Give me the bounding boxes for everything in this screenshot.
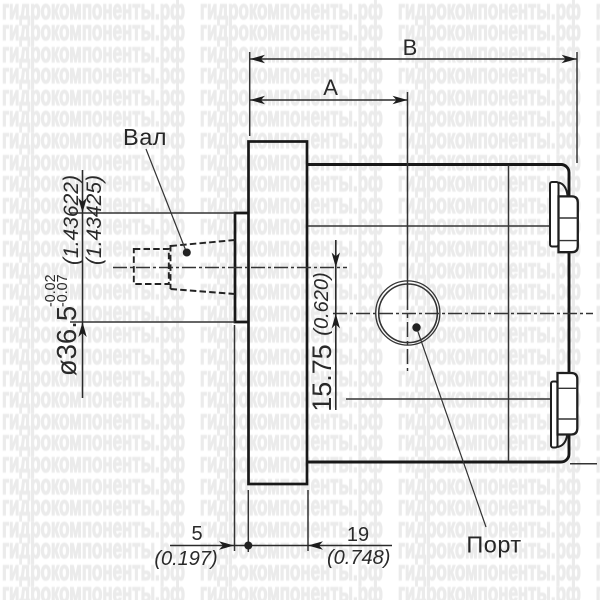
extension line hub bottom xyxy=(70,321,235,323)
dimension 15.75 arrow top xyxy=(332,253,340,268)
bolt bottom washer xyxy=(551,382,558,448)
dimension A arrow right xyxy=(393,96,408,104)
shaft hidden outline: taper bottom xyxy=(171,289,236,294)
svg-text:ø36.5: ø36.5 xyxy=(51,306,82,376)
shaft hidden outline: taper top xyxy=(171,240,236,246)
port horizontal centerline xyxy=(333,313,593,315)
bolt top washer xyxy=(550,182,559,247)
shaft hidden outline: threaded end xyxy=(134,249,169,284)
svg-text:(0.197): (0.197) xyxy=(154,548,217,570)
bolt top facet lines xyxy=(559,217,578,219)
pilot hub boss xyxy=(235,213,249,322)
bolt bottom hex head xyxy=(558,373,578,435)
port leader dot xyxy=(412,323,420,331)
dimension B line xyxy=(250,58,577,60)
svg-text:Порт: Порт xyxy=(466,532,521,558)
svg-text:(0.748): (0.748) xyxy=(327,547,390,569)
svg-text:В: В xyxy=(403,35,418,60)
dimension common dot xyxy=(244,542,252,550)
bolt top hex head xyxy=(559,196,578,252)
extension line hub face bottom xyxy=(234,325,236,551)
svg-text:-0.07: -0.07 xyxy=(55,274,71,307)
bolt bottom facet lines xyxy=(558,387,578,389)
dimension B arrow left xyxy=(250,55,265,63)
bolt top washer-head fillet xyxy=(559,183,568,196)
svg-text:Вал: Вал xyxy=(123,124,167,150)
port vertical centerline / dimension A extension xyxy=(407,92,409,295)
dimension 19 arrow xyxy=(308,541,323,549)
dimension A line xyxy=(250,99,408,101)
port outer circle xyxy=(376,281,440,345)
gear chamber bottom line xyxy=(346,398,551,400)
port inner circle xyxy=(379,284,438,343)
mounting flange xyxy=(249,142,308,485)
svg-text:15.75: 15.75 xyxy=(307,344,337,412)
svg-text:(0.620): (0.620) xyxy=(311,272,333,335)
pump body outline xyxy=(307,165,569,463)
dimension B arrow right xyxy=(562,55,577,63)
dimension A arrow left xyxy=(250,96,265,104)
svg-text:(1.43622): (1.43622) xyxy=(60,175,83,265)
svg-text:5: 5 xyxy=(191,523,202,545)
dimension d36.5 line xyxy=(82,170,84,398)
edge line right of bottom corner xyxy=(570,463,597,465)
svg-text:19: 19 xyxy=(347,524,369,546)
dimension d36.5 arrow bottom xyxy=(78,322,86,337)
dimension 5/19 line xyxy=(170,545,392,547)
body parting line vertical xyxy=(508,166,510,462)
shaft centerline xyxy=(113,267,347,269)
extension line flange face bottom xyxy=(247,490,249,552)
svg-text:А: А xyxy=(323,75,338,100)
shaft leader dot xyxy=(183,249,191,257)
extension line flange face left xyxy=(249,52,251,136)
port leader line xyxy=(417,329,486,527)
dimension 15.75 line xyxy=(335,240,337,410)
svg-text:(1.43425): (1.43425) xyxy=(83,175,106,265)
shaft hidden outline: shoulder xyxy=(170,245,172,289)
extension line body face bottom xyxy=(307,490,309,551)
gear chamber top line xyxy=(308,225,550,227)
extension line hub top xyxy=(70,212,235,214)
shaft leader line xyxy=(146,149,186,251)
bolt bottom washer-head fillet xyxy=(558,436,568,448)
dimension 5 arrow xyxy=(219,541,234,549)
dimension 15.75 arrow bottom xyxy=(332,314,340,329)
dimension d36.5 arrow top xyxy=(78,198,86,213)
extension line bolt face right xyxy=(576,52,578,163)
